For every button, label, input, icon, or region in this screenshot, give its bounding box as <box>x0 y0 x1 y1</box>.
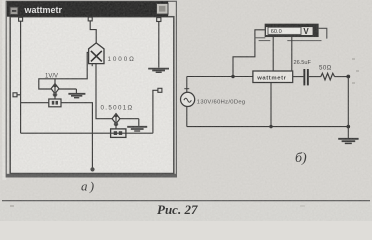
terminal T3 top-right <box>157 18 161 22</box>
source D1 diamond <box>51 84 59 94</box>
terminal T1 top-left <box>19 17 23 21</box>
resistor R1 zigzag <box>321 73 335 80</box>
terminal T2 top-middle <box>88 17 92 21</box>
circuit b) labels <box>197 27 332 106</box>
scan noise specks <box>10 58 359 207</box>
wire T2 to multiplier top <box>90 21 96 43</box>
box B1 <box>49 99 61 107</box>
wire source top <box>186 77 188 93</box>
wire source bottom <box>186 107 188 127</box>
terminal T5 right <box>158 88 162 92</box>
wire J3 down to ground <box>347 77 349 139</box>
page left light margin <box>2 0 6 180</box>
window bottom border band <box>6 174 176 177</box>
voltmeter box <box>265 24 318 36</box>
wire jumper J1 to voltmeter left <box>233 30 265 77</box>
ground G1 <box>148 69 169 73</box>
wire voltmeter bottom tray right segment <box>287 40 321 42</box>
ground G4 <box>338 139 358 144</box>
wire wattmeter bottom stub <box>270 83 272 127</box>
wire main horizontal <box>187 76 253 78</box>
wire box B1 right, down to bottom pin <box>61 103 92 168</box>
bottom pin P5 <box>90 167 94 171</box>
node J1 <box>231 75 234 78</box>
wire T4 stub <box>17 94 21 96</box>
circuit a) labels <box>45 56 136 112</box>
ground G2 <box>68 94 85 98</box>
voltmeter display <box>268 27 301 34</box>
terminal T4 left <box>13 93 17 97</box>
capacitor C1 <box>303 69 305 85</box>
wire wattmeter right to capacitor <box>293 76 304 78</box>
wire rail to box B1 <box>21 102 49 104</box>
wire voltmeter bottom tray left segment <box>259 40 271 42</box>
title bar button <box>157 4 169 15</box>
wire bottom return <box>187 126 348 128</box>
wire right side up to T5 <box>153 90 158 133</box>
wire D2 bottom to box B3 <box>115 124 117 129</box>
wire D1 right to ground G2 <box>59 88 77 90</box>
source D1 (1V/V) stub top <box>54 79 56 84</box>
wire resistor to node J3 <box>335 76 349 78</box>
window outer frame <box>6 1 176 177</box>
wire stub voltmeter to wattmeter top-left <box>272 37 274 72</box>
box B3 <box>111 129 126 138</box>
multiplier U1 <box>89 43 104 64</box>
wire multiplier left pin loop <box>39 52 89 89</box>
wire D2 right to ground G3 <box>120 118 139 120</box>
wire D1 bottom to box1 <box>54 94 56 99</box>
source V1 circle <box>181 92 195 106</box>
wattmeter box <box>253 71 293 83</box>
voltmeter right wire <box>318 28 327 38</box>
wire left rail <box>20 21 22 133</box>
node J2 <box>269 125 272 128</box>
rule line <box>2 200 370 202</box>
node J3 <box>346 75 350 79</box>
wire bottom long <box>21 132 153 134</box>
window inner content area <box>10 17 174 174</box>
title bar system icon <box>10 7 18 14</box>
wire voltmeter left terminal lower edge <box>255 37 265 39</box>
lighter strip bottom <box>0 201 372 221</box>
wire T3 down to ground <box>158 22 160 68</box>
ground G3 <box>127 127 147 131</box>
source plus tick <box>184 88 189 90</box>
wire capacitor to resistor <box>309 76 321 78</box>
node J4 <box>347 125 351 129</box>
title bar <box>7 1 168 16</box>
multiplier bottom pin tick <box>91 64 93 67</box>
wire stub voltmeter to wattmeter top-right <box>291 37 293 72</box>
wire multiplier Y pin down to D2 <box>96 64 112 119</box>
source D2 (0.5001 ohm) diamond <box>112 114 120 124</box>
